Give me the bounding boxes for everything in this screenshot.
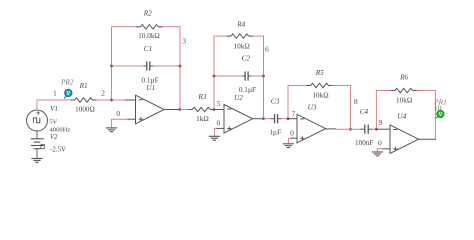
U3 inverting input pin [288, 118, 297, 120]
ground at U3 plus input [283, 143, 294, 145]
U4 inverting input pin [376, 128, 390, 130]
U4 non-inverting input pin [383, 148, 391, 150]
capacitor C1 [146, 61, 148, 70]
junction C1 left [110, 65, 113, 68]
svg-text:10.0kΩ: 10.0kΩ [138, 32, 160, 40]
op-amp U4 [390, 125, 419, 154]
C3 right lead [278, 118, 282, 120]
feedback loop wire stage4 [376, 91, 435, 140]
svg-text:V2: V2 [50, 134, 58, 141]
probe PR1 [436, 110, 444, 118]
svg-text:1000Ω: 1000Ω [75, 105, 95, 113]
U1 inverting input pin [125, 99, 136, 101]
svg-text:U4: U4 [397, 113, 406, 121]
svg-text:6: 6 [265, 44, 269, 53]
resistor R1 [71, 99, 75, 101]
wire V1 top to node 1 horizontal run [37, 100, 75, 110]
U2 inverting input pin [214, 109, 224, 111]
svg-text:R6: R6 [399, 74, 408, 82]
junction C2 right [262, 75, 265, 78]
U1 output pin [164, 109, 180, 111]
wire R1 to node 2 [97, 99, 112, 101]
svg-text:0: 0 [378, 138, 382, 147]
feedback loop wire stage2 [214, 36, 264, 119]
svg-text:R4: R4 [236, 21, 245, 29]
svg-text:U3: U3 [308, 104, 317, 112]
svg-text:R5: R5 [315, 69, 324, 77]
wire C4 to node 9 [373, 128, 377, 130]
C3 left lead [271, 118, 275, 120]
ground at U1 plus input [106, 127, 117, 129]
svg-text:0: 0 [116, 109, 120, 118]
wire node 2 to U1 [112, 99, 126, 101]
junction node6 output [262, 117, 265, 120]
wire U1 output to R3 [180, 109, 192, 111]
U3 non-inverting input pin [291, 137, 298, 139]
probe PR2 [64, 89, 72, 99]
feedback loop wire stage3 [288, 86, 350, 130]
C4 right lead [368, 128, 372, 130]
wire U4 plus input to ground [377, 149, 382, 152]
wire U3 output to C4 [336, 128, 360, 130]
resistor R5 [310, 82, 329, 90]
svg-text:7: 7 [292, 109, 296, 118]
svg-text:-2.5V: -2.5V [50, 147, 66, 154]
svg-text:R3: R3 [197, 93, 206, 101]
U1 non-inverting input pin [128, 118, 136, 120]
op-amp U3 [297, 114, 326, 143]
svg-text:10kΩ: 10kΩ [396, 96, 412, 104]
svg-text:0.1µF: 0.1µF [239, 86, 256, 94]
wire U3 plus input to ground [288, 138, 290, 143]
source V1 square-wave generator [27, 110, 48, 131]
junction C1 right [179, 65, 182, 68]
U3 output pin [326, 128, 336, 130]
svg-text:R1: R1 [79, 82, 88, 90]
svg-text:3: 3 [182, 37, 186, 46]
wire U2 plus input to ground [214, 128, 216, 136]
svg-text:10kΩ: 10kΩ [312, 92, 328, 100]
svg-text:C4: C4 [360, 108, 369, 116]
wire C3 to node 7 [282, 118, 288, 120]
capacitor C4 [364, 125, 366, 134]
junction C2 left [213, 75, 216, 78]
junction node8 output [349, 128, 352, 131]
U2 non-inverting input pin [217, 127, 225, 129]
resistor R3 [188, 109, 192, 111]
svg-text:C2: C2 [242, 54, 251, 62]
junction node2 left vertical [110, 99, 113, 102]
capacitor C3 [274, 114, 276, 123]
resistor R4 [230, 32, 249, 40]
wire U2 output to C3 [264, 118, 271, 120]
feedback loop wire stage1: left vertical, top, right vertical [112, 27, 181, 110]
svg-text:0: 0 [290, 129, 294, 138]
svg-text:2: 2 [101, 89, 105, 98]
op-amp U1 [136, 95, 165, 124]
svg-text:C1: C1 [144, 45, 152, 53]
battery V2 [31, 131, 45, 158]
svg-text:4000Hz: 4000Hz [50, 127, 71, 134]
svg-text:1µF: 1µF [269, 129, 281, 137]
svg-text:C3: C3 [271, 98, 280, 106]
U2 output pin [253, 118, 264, 120]
U4 output pin [419, 138, 436, 140]
ground at U2 plus input [209, 135, 220, 137]
junction node5 [213, 108, 216, 111]
svg-text:U1: U1 [146, 84, 155, 92]
svg-text:1kΩ: 1kΩ [196, 115, 209, 123]
svg-text:10kΩ: 10kΩ [234, 42, 250, 50]
resistor R2 [140, 23, 159, 31]
svg-text:U2: U2 [234, 94, 243, 102]
svg-text:9: 9 [379, 118, 383, 127]
wire C2 branch [214, 75, 242, 77]
junction node7 [287, 117, 290, 120]
ground at U4 plus input [372, 151, 383, 153]
capacitor C2 [244, 71, 246, 80]
junction node9 [375, 128, 378, 131]
junction node3 output [179, 108, 182, 111]
svg-text:R2: R2 [143, 9, 152, 17]
op-amp U2 [224, 105, 253, 134]
svg-text:0: 0 [217, 118, 221, 127]
svg-text:PR2: PR2 [60, 79, 74, 87]
resistor R6 [394, 87, 413, 95]
wire U1 plus input to ground [112, 119, 128, 128]
svg-text:100nF: 100nF [355, 139, 373, 147]
wire C1 branch [112, 65, 144, 67]
ground under V2 [31, 158, 42, 160]
svg-text:5: 5 [217, 99, 221, 108]
svg-text:V1: V1 [50, 106, 58, 113]
svg-text:8: 8 [354, 97, 358, 106]
svg-text:5V: 5V [49, 118, 57, 125]
svg-text:1: 1 [53, 88, 57, 97]
C4 left lead [360, 128, 365, 130]
